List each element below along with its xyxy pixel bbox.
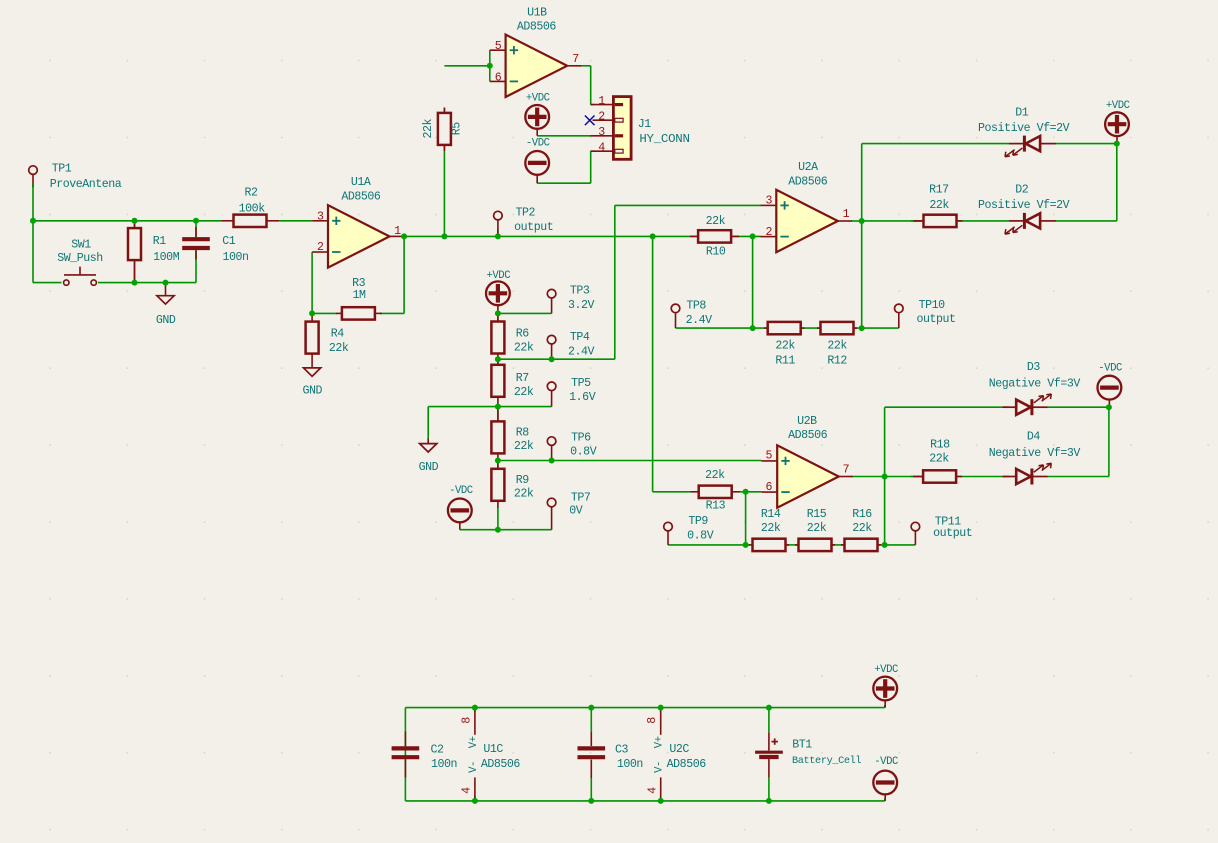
- junction TP2: [495, 233, 501, 239]
- svg-text:R16: R16: [852, 508, 872, 521]
- svg-text:U2C: U2C: [669, 743, 689, 756]
- wire vertical D1/R17/R12: [861, 144, 863, 329]
- test point TP1: [29, 166, 38, 188]
- wire R8-R9 gap: [497, 461, 499, 469]
- svg-text:TP9: TP9: [688, 515, 708, 528]
- svg-text:BT1: BT1: [792, 739, 812, 752]
- wire U2A pin2 down to R11: [752, 236, 754, 328]
- svg-text:0.8V: 0.8V: [570, 445, 597, 458]
- wire out to R18: [885, 476, 924, 478]
- junction C3 bottom: [588, 798, 594, 804]
- svg-text:GND: GND: [419, 461, 439, 474]
- op-amp U2A: [761, 190, 852, 252]
- svg-text:-VDC: -VDC: [526, 138, 550, 150]
- op-amp U1B: [490, 35, 581, 97]
- power +VDC (ladder): [486, 281, 510, 313]
- wire +VDC to R6: [497, 313, 499, 321]
- wire TP8 to R11: [676, 327, 768, 329]
- svg-text:100n: 100n: [431, 758, 457, 771]
- svg-text:5: 5: [495, 40, 502, 53]
- svg-text:R7: R7: [516, 372, 530, 385]
- wire D4 right: [1048, 476, 1109, 478]
- wire R2 to U1A pin3: [279, 220, 312, 222]
- svg-text:U1A: U1A: [351, 176, 371, 189]
- svg-text:1M: 1M: [352, 289, 366, 302]
- junction U1A out: [401, 233, 407, 239]
- wire bottom power rail: [405, 800, 884, 802]
- wire to SW1 left contact: [33, 282, 62, 284]
- junction R11 left: [750, 325, 756, 331]
- svg-text:TP4: TP4: [570, 331, 590, 344]
- svg-text:22k: 22k: [929, 199, 949, 212]
- svg-text:AD8506: AD8506: [517, 20, 557, 33]
- resistor R18: [913, 470, 962, 482]
- svg-text:V-: V-: [468, 761, 480, 773]
- svg-text:22k: 22k: [807, 522, 827, 535]
- wire GND3 drop: [427, 407, 429, 439]
- svg-text:R17: R17: [929, 184, 949, 197]
- svg-text:R1: R1: [153, 235, 167, 248]
- svg-text:C1: C1: [222, 235, 236, 248]
- wire C1 bottom riser: [195, 250, 197, 283]
- resistor R11: [764, 322, 804, 334]
- svg-text:2: 2: [765, 226, 772, 239]
- wire -VDC node down: [1108, 407, 1110, 476]
- wire U1C V+ stub: [474, 708, 476, 712]
- power +VDC (J1): [525, 105, 549, 136]
- wire R9 bottom: [497, 507, 499, 530]
- junction U2C V+: [658, 705, 664, 711]
- svg-text:22k: 22k: [422, 118, 435, 138]
- wire U2A out: [851, 220, 862, 222]
- svg-text:output: output: [933, 527, 972, 540]
- svg-text:V+: V+: [468, 736, 480, 748]
- wire C2 branch: [404, 708, 406, 801]
- wire through R1: [134, 221, 136, 283]
- wire R14-R15: [785, 544, 799, 546]
- junction C1 top: [193, 218, 199, 224]
- wire 2.4V riser: [614, 205, 616, 359]
- test point TP6: [547, 437, 556, 461]
- LED D2: [1005, 213, 1056, 234]
- svg-text:TP7: TP7: [571, 491, 591, 504]
- junction main/R13 branch: [650, 233, 656, 239]
- wire to TP3: [498, 312, 547, 314]
- wire to U2A pin3: [615, 204, 761, 206]
- test point TP4: [547, 335, 556, 359]
- svg-text:100n: 100n: [617, 758, 643, 771]
- resistor R13: [691, 486, 740, 498]
- wire out node vertical: [884, 407, 886, 545]
- no-connect X on J1 pin2: [585, 116, 595, 126]
- node A junction: [30, 218, 36, 224]
- svg-text:U2A: U2A: [798, 161, 818, 174]
- svg-text:TP1: TP1: [52, 162, 72, 175]
- wire U1A pin2 down: [311, 252, 313, 314]
- junction R1 bottom: [132, 280, 138, 286]
- svg-text:V-: V-: [654, 761, 666, 773]
- svg-text:22k: 22k: [775, 340, 795, 353]
- svg-text:2: 2: [598, 111, 605, 124]
- ground GND3: [420, 444, 437, 452]
- resistor R3: [336, 307, 382, 319]
- svg-text:R15: R15: [807, 508, 827, 521]
- svg-text:22k: 22k: [514, 488, 534, 501]
- GND3 stem: [427, 439, 429, 444]
- test point TP11: [911, 522, 920, 545]
- svg-text:Battery_Cell: Battery_Cell: [792, 755, 861, 767]
- svg-text:R11: R11: [775, 354, 795, 367]
- resistor R16: [841, 539, 881, 551]
- svg-text:3: 3: [765, 194, 772, 207]
- svg-text:1: 1: [843, 208, 850, 221]
- svg-text:+VDC: +VDC: [874, 664, 898, 676]
- svg-text:C2: C2: [430, 744, 444, 757]
- wire main down to R13: [652, 236, 654, 491]
- resistor R10: [690, 230, 739, 242]
- svg-text:R5: R5: [451, 122, 464, 136]
- svg-text:R4: R4: [331, 328, 345, 341]
- junction R9 bottom: [495, 527, 501, 533]
- svg-text:R13: R13: [706, 500, 726, 513]
- svg-text:D2: D2: [1015, 184, 1029, 197]
- svg-text:U1B: U1B: [527, 6, 547, 19]
- op-amp U2B: [761, 445, 852, 507]
- resistor R8: [491, 407, 504, 461]
- svg-text:+VDC: +VDC: [486, 270, 510, 282]
- svg-text:R12: R12: [827, 354, 847, 367]
- wire D3 to -VDC node: [1048, 406, 1109, 408]
- svg-text:Positive Vf=2V: Positive Vf=2V: [978, 122, 1070, 135]
- svg-text:J1: J1: [638, 118, 652, 131]
- junction R12 right: [859, 325, 865, 331]
- op-amp U1A: [312, 205, 403, 267]
- svg-text:22k: 22k: [929, 452, 949, 465]
- ground GND1 symbol: [157, 296, 174, 304]
- junction U2C V-: [658, 798, 664, 804]
- svg-text:8: 8: [460, 717, 473, 724]
- test point TP8: [671, 304, 680, 328]
- connector J1: [591, 97, 632, 160]
- svg-text:GND: GND: [156, 314, 176, 327]
- junction R13/U2B pin6: [743, 489, 749, 495]
- svg-text:1.6V: 1.6V: [569, 391, 596, 404]
- wire R15-R16: [831, 544, 845, 546]
- op-amp power unit U1C: [474, 708, 476, 801]
- svg-text:SW_Push: SW_Push: [57, 252, 103, 265]
- wire R11-R12: [801, 327, 820, 329]
- wire +VDC to J1 pin3: [537, 135, 591, 137]
- svg-text:4: 4: [461, 787, 474, 794]
- svg-text:TP2: TP2: [516, 206, 536, 219]
- svg-text:22k: 22k: [329, 342, 349, 355]
- svg-text:+VDC: +VDC: [526, 92, 550, 104]
- svg-text:R9: R9: [516, 474, 530, 487]
- wire D2 right: [1056, 220, 1117, 222]
- junction D1/+VDC: [1114, 141, 1120, 147]
- junction U1B inputs: [487, 63, 493, 69]
- wire U1B out: [581, 65, 591, 67]
- svg-text:2.4V: 2.4V: [686, 314, 713, 327]
- junction TP4: [549, 356, 555, 362]
- test point TP7: [547, 498, 556, 530]
- svg-text:2.4V: 2.4V: [568, 345, 595, 358]
- svg-text:Negative Vf=3V: Negative Vf=3V: [989, 377, 1081, 390]
- svg-text:R10: R10: [706, 246, 726, 259]
- wire J1 pin4 stub: [591, 150, 594, 152]
- svg-text:GND: GND: [303, 385, 323, 398]
- wire out to R17: [862, 220, 924, 222]
- wire U2C V- stub: [660, 796, 662, 801]
- svg-text:6: 6: [766, 481, 773, 494]
- junction BT1 bottom: [766, 798, 772, 804]
- junction R16 right: [882, 542, 888, 548]
- wire +VDC node down: [1116, 144, 1118, 221]
- svg-text:AD8506: AD8506: [481, 758, 521, 771]
- svg-text:0.8V: 0.8V: [687, 530, 714, 543]
- wire J1 pin1 stub: [591, 104, 594, 106]
- wire top power rail: [405, 707, 884, 709]
- svg-text:D1: D1: [1015, 107, 1029, 120]
- ground GND1: [165, 283, 167, 296]
- junction U1C V+: [472, 705, 478, 711]
- svg-text:22k: 22k: [761, 522, 781, 535]
- junction C3 top: [588, 705, 594, 711]
- svg-text:22k: 22k: [514, 440, 534, 453]
- svg-text:100M: 100M: [153, 251, 180, 264]
- wire R16 to TP11: [878, 544, 916, 546]
- resistor R1: [128, 221, 141, 283]
- svg-text:V+: V+: [654, 736, 666, 748]
- svg-text:3.2V: 3.2V: [568, 299, 595, 312]
- ground GND2: [304, 368, 321, 376]
- LED D4: [1003, 463, 1052, 484]
- test point TP3: [547, 289, 556, 313]
- resistor R9: [491, 461, 504, 508]
- wire TP9 to R14: [668, 544, 750, 546]
- LED D1: [1005, 136, 1056, 157]
- test point TP5: [547, 382, 556, 407]
- wire pin6 node down: [745, 492, 747, 545]
- resistor R7: [491, 359, 504, 406]
- resistor R12: [817, 322, 857, 334]
- resistor R5: [438, 108, 451, 151]
- wire SW1 right to C1 bottom: [98, 282, 196, 284]
- wire R6-R7 gap: [497, 359, 499, 365]
- power -VDC (ladder): [448, 499, 472, 530]
- svg-text:100k: 100k: [239, 203, 266, 216]
- resistor R14: [749, 539, 789, 551]
- switch SW1: [64, 267, 97, 286]
- svg-text:4: 4: [598, 142, 605, 155]
- svg-text:R8: R8: [516, 426, 530, 439]
- capacitor C2: [392, 732, 420, 778]
- svg-text:22k: 22k: [514, 342, 534, 355]
- svg-text:AD8506: AD8506: [341, 190, 381, 203]
- wire 0.8V to U2B pin5: [498, 460, 762, 462]
- wire R18 to D4: [910, 476, 1009, 478]
- resistor R17: [914, 215, 963, 227]
- wire TP2 stem bottom: [497, 229, 499, 236]
- svg-text:100n: 100n: [222, 251, 248, 264]
- svg-text:ProveAntena: ProveAntena: [50, 178, 122, 191]
- svg-text:R14: R14: [761, 508, 781, 521]
- svg-text:22k: 22k: [706, 215, 726, 228]
- svg-text:output: output: [916, 313, 955, 326]
- svg-text:output: output: [514, 221, 553, 234]
- capacitor C1: [182, 227, 210, 260]
- junction R5 bottom: [441, 233, 447, 239]
- power +VDC (rail): [873, 677, 897, 708]
- wire +VDC stem btm: [884, 705, 886, 708]
- wire to TP4 node: [498, 358, 552, 360]
- wire to D3: [885, 406, 1009, 408]
- test point TP2: [494, 211, 503, 236]
- resistor R4: [306, 313, 319, 367]
- wire stub: [752, 235, 754, 237]
- junction U2B out: [882, 474, 888, 480]
- wire -VDC to right: [537, 182, 591, 184]
- svg-text:TP5: TP5: [571, 377, 591, 390]
- svg-text:R2: R2: [244, 187, 258, 200]
- wire R5 top to U1B inputs: [444, 65, 489, 67]
- svg-text:22k: 22k: [827, 340, 847, 353]
- svg-text:AD8506: AD8506: [788, 429, 828, 442]
- wire BT1 top: [768, 708, 770, 733]
- wire R12 to TP10: [854, 327, 899, 329]
- junction U2A pin2: [750, 233, 756, 239]
- wire to TP5: [498, 406, 552, 408]
- wire U1C V- stub: [474, 796, 476, 801]
- svg-text:R18: R18: [930, 439, 950, 452]
- svg-text:D3: D3: [1027, 361, 1041, 374]
- wire feedback up: [403, 236, 405, 313]
- junction R3/R4: [309, 310, 315, 316]
- svg-text:TP6: TP6: [571, 432, 591, 445]
- svg-text:22k: 22k: [705, 469, 725, 482]
- wire node A to R2: [33, 220, 222, 222]
- svg-text:AD8506: AD8506: [788, 176, 828, 189]
- wire R3 right: [380, 312, 404, 314]
- resistor R15: [795, 539, 835, 551]
- wire U1B input bus: [489, 50, 491, 81]
- svg-text:4: 4: [647, 787, 660, 794]
- junction BT1 top: [766, 705, 772, 711]
- svg-text:2: 2: [317, 241, 324, 254]
- svg-text:-VDC: -VDC: [449, 485, 473, 497]
- wire BT1 bottom: [768, 778, 770, 801]
- wire to TP7: [498, 529, 552, 531]
- junction GND1: [163, 280, 169, 286]
- svg-text:Negative Vf=3V: Negative Vf=3V: [989, 447, 1081, 460]
- wire to R13 left: [653, 491, 692, 493]
- junction U2A out: [859, 218, 865, 224]
- svg-text:22k: 22k: [514, 386, 534, 399]
- wire -VDC drop: [536, 180, 538, 184]
- wire R7-R8 gap: [497, 407, 499, 421]
- junction U1C V-: [472, 798, 478, 804]
- wire R5 riser: [443, 108, 445, 237]
- svg-text:1: 1: [598, 95, 605, 108]
- wire -VDC to R9 node: [460, 529, 498, 531]
- resistor R6: [491, 313, 504, 359]
- op-amp power unit U2C: [660, 708, 662, 801]
- junction TP6: [549, 458, 555, 464]
- svg-text:D4: D4: [1027, 431, 1041, 444]
- svg-text:-VDC: -VDC: [1098, 363, 1122, 375]
- svg-text:Positive Vf=2V: Positive Vf=2V: [978, 199, 1070, 212]
- svg-text:7: 7: [843, 464, 850, 477]
- svg-text:3: 3: [598, 126, 605, 139]
- test point TP9: [664, 522, 673, 545]
- svg-text:U2B: U2B: [797, 415, 817, 428]
- resistor R2: [222, 215, 280, 227]
- power -VDC (D3): [1098, 376, 1122, 408]
- wire -VDC stem btm: [884, 799, 886, 801]
- wire to R3 left: [312, 312, 337, 314]
- wire R17 to D2: [911, 220, 1009, 222]
- svg-text:-VDC: -VDC: [874, 756, 898, 768]
- svg-text:+VDC: +VDC: [1106, 100, 1130, 112]
- wire U2C V+ stub: [660, 708, 662, 712]
- wire TP3 stub: [547, 312, 552, 314]
- power -VDC (rail): [873, 771, 897, 801]
- svg-text:6: 6: [495, 71, 502, 84]
- svg-text:7: 7: [572, 53, 579, 66]
- battery BT1: [755, 732, 783, 777]
- junction R7/R8: [495, 404, 501, 410]
- test point TP10: [895, 304, 904, 328]
- junction R6/R7: [495, 356, 501, 362]
- junction R1 top: [132, 218, 138, 224]
- svg-text:SW1: SW1: [71, 239, 91, 252]
- svg-text:TP3: TP3: [570, 284, 590, 297]
- wire node A down: [32, 221, 34, 283]
- junction +VDC/R6: [495, 310, 501, 316]
- wire up to J1 pin4: [590, 151, 592, 183]
- wire D1 to +VDC node: [1056, 143, 1117, 145]
- wire U1A output main: [404, 235, 761, 237]
- svg-text:HY_CONN: HY_CONN: [639, 132, 689, 146]
- wire to GND3: [428, 406, 498, 408]
- wire U2B out: [851, 476, 885, 478]
- svg-text:R6: R6: [516, 328, 530, 341]
- junction D3/-VDC: [1106, 404, 1112, 410]
- svg-text:8: 8: [646, 717, 659, 724]
- junction R14 left: [743, 542, 749, 548]
- wire C1 top to node: [195, 221, 197, 238]
- svg-text:TP10: TP10: [919, 299, 946, 312]
- svg-text:TP8: TP8: [686, 300, 706, 313]
- svg-text:U1C: U1C: [483, 743, 503, 756]
- LED D3: [1003, 394, 1052, 415]
- svg-text:C3: C3: [615, 744, 629, 757]
- wire C3 top: [590, 708, 592, 732]
- wire C3 bottom: [590, 778, 592, 801]
- wire R13 to U2B pin6: [740, 491, 762, 493]
- junction R8/R9: [495, 458, 501, 464]
- capacitor C3: [578, 732, 606, 778]
- wire 2.4V to right: [552, 358, 615, 360]
- svg-text:0V: 0V: [569, 504, 583, 517]
- svg-text:22k: 22k: [852, 522, 872, 535]
- power -VDC (J1): [525, 151, 549, 183]
- wire down to J1 pin1: [590, 66, 592, 105]
- wire TP1 stem to node A: [32, 184, 34, 221]
- svg-text:1: 1: [394, 225, 401, 238]
- svg-text:3: 3: [317, 210, 324, 223]
- svg-text:AD8506: AD8506: [667, 758, 707, 771]
